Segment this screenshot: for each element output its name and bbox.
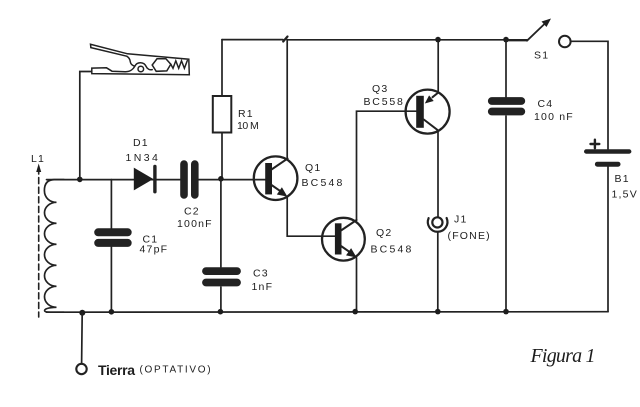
svg-text:47pF: 47pF	[140, 244, 169, 256]
wire Tierra drop	[81, 313, 84, 364]
svg-text:(OPTATIVO): (OPTATIVO)	[140, 365, 213, 376]
wire S1 to battery	[571, 41, 608, 149]
wire ground rail	[47, 311, 609, 314]
wire Q2 emitter to ground rail	[356, 258, 358, 312]
wire Q2 collector to Q3 base	[357, 111, 417, 220]
diode D1	[134, 168, 154, 191]
transistor Q1	[254, 156, 344, 200]
wire C4 top	[505, 40, 507, 97]
svg-text:C2: C2	[184, 206, 200, 218]
svg-text:1,5V: 1,5V	[612, 189, 638, 201]
svg-text:Q3: Q3	[372, 83, 388, 95]
svg-text:B1: B1	[615, 173, 630, 185]
svg-text:Figura 1: Figura 1	[530, 345, 596, 367]
node C3 ground	[218, 309, 224, 315]
node clip junction	[77, 177, 83, 183]
svg-text:(FONE): (FONE)	[448, 230, 491, 242]
svg-text:BC558: BC558	[364, 96, 405, 108]
svg-text:1nF: 1nF	[252, 281, 274, 293]
wire J1 to ground rail	[437, 232, 439, 311]
L1 core dashed line	[38, 168, 40, 317]
wire R1 top (rail to R1)	[221, 40, 223, 96]
node C1 ground	[109, 309, 115, 315]
svg-text:S1: S1	[534, 50, 549, 62]
battery B1	[586, 149, 629, 153]
wire C1 bottom	[110, 247, 112, 312]
svg-text:Tierra: Tierra	[98, 362, 135, 378]
svg-text:R1: R1	[238, 108, 254, 120]
wire C4 bottom	[505, 116, 507, 312]
antenna alligator clip	[91, 44, 190, 75]
wire Q1 collector to rail	[286, 40, 288, 159]
node C4 rail junction	[503, 37, 509, 43]
svg-text:Q1: Q1	[305, 162, 321, 174]
capacitor C2	[184, 164, 195, 195]
svg-text:L1: L1	[31, 153, 45, 165]
transistor Q3	[364, 83, 450, 134]
wire C3 bottom	[220, 287, 222, 312]
inductor L1	[44, 180, 64, 313]
node J1 ground	[435, 309, 441, 315]
svg-text:BC548: BC548	[302, 177, 344, 189]
wire R1 bottom to main line	[221, 133, 223, 179]
capacitor C1	[98, 232, 128, 243]
wire top rail hand tick	[283, 37, 287, 42]
wire Q1 emitter to Q2 base	[287, 197, 335, 236]
node C4 ground	[503, 309, 509, 315]
switch S1	[506, 40, 527, 42]
svg-text:C3: C3	[253, 268, 269, 280]
transistor Q2	[322, 218, 413, 261]
svg-text:100 nF: 100 nF	[534, 111, 574, 123]
wire Q3 collector to J1	[437, 131, 439, 218]
wire antenna clip lead	[80, 72, 92, 180]
L1 core arrow	[36, 164, 41, 173]
node Q3 emitter rail junction	[435, 37, 441, 43]
wire to C3	[220, 179, 222, 267]
svg-text:D1: D1	[133, 137, 149, 149]
node Q2 emitter ground	[352, 309, 358, 315]
capacitor C4	[492, 101, 522, 112]
capacitor C3	[206, 271, 237, 282]
svg-text:1N34: 1N34	[126, 152, 160, 164]
wire C1 top	[110, 180, 112, 229]
svg-text:Q2: Q2	[376, 227, 392, 239]
node Tierra junction	[79, 310, 85, 316]
wire battery to ground rail	[607, 167, 609, 312]
svg-text:BC548: BC548	[371, 244, 413, 256]
svg-text:J1: J1	[454, 214, 468, 226]
svg-text:100nF: 100nF	[177, 218, 213, 230]
ground terminal Tierra	[76, 364, 86, 374]
svg-text:C4: C4	[538, 98, 554, 110]
wire Q3 emitter to rail	[437, 40, 439, 93]
node R1/C3 junction	[218, 176, 224, 182]
resistor R1	[213, 96, 232, 133]
wire main signal line	[47, 179, 267, 181]
jack J1	[428, 214, 491, 242]
wire top rail V+	[222, 39, 527, 41]
svg-text:10 M: 10 M	[237, 120, 260, 132]
